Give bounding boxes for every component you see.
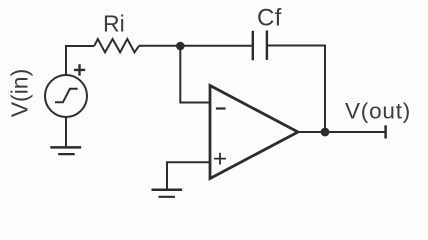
wire: junction down to op-amp inverting input [180, 46, 210, 103]
ground (source) [50, 147, 81, 154]
wire: non-inverting input left and down to ground [167, 162, 210, 189]
node: output junction [321, 128, 330, 137]
voltage source V(in) [45, 75, 87, 117]
wire: op-amp output to terminal [298, 131, 386, 133]
terminal V(out) [384, 125, 387, 138]
svg-text:Cf: Cf [257, 5, 282, 32]
wire: resistor to capacitor left plate [139, 45, 252, 47]
source + polarity mark [74, 64, 85, 75]
wire: capacitor right plate to feedback corner down to output node [267, 46, 325, 133]
ground (op-amp non-inverting input) [152, 190, 183, 197]
svg-text:Ri: Ri [103, 11, 125, 37]
op-amp non-inverting input marker (plus) [214, 153, 226, 165]
svg-text:V(out): V(out) [345, 98, 411, 123]
node: inverting input junction [176, 42, 185, 51]
svg-text:V(in): V(in) [6, 69, 32, 118]
op-amp U1 [210, 86, 298, 179]
capacitor Cf [253, 31, 267, 61]
wire: source bottom to ground [65, 117, 67, 147]
resistor Ri [94, 39, 139, 52]
wire: source top up and right to resistor [66, 46, 94, 75]
source ramp waveform symbol [55, 89, 78, 103]
op-amp inverting input marker (minus) [216, 107, 226, 109]
